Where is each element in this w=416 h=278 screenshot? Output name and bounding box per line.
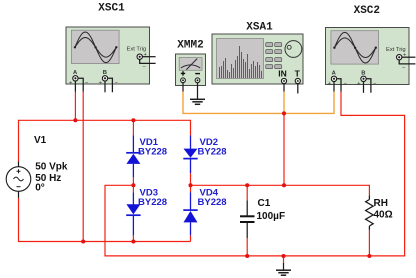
- svg-text:C1: C1: [258, 198, 271, 209]
- wire: output node down from orange junction to mid bus: [283, 113, 285, 185]
- svg-text:100µF: 100µF: [257, 211, 286, 222]
- svg-text:B: B: [361, 71, 365, 77]
- diode VD4: [183, 192, 197, 235]
- svg-text:BY228: BY228: [198, 147, 227, 158]
- diode VD1: [126, 135, 140, 177]
- svg-text:XSC1: XSC1: [98, 3, 125, 15]
- diode VD3: [126, 192, 140, 235]
- svg-text:XSC2: XSC2: [354, 5, 380, 17]
- XSC1 channel A pin stubs: [75, 78, 83, 91]
- junction bottom bus at C1: [245, 254, 249, 258]
- XSC2 channel A terminal: [328, 71, 348, 88]
- XSC1 channel B terminal: [99, 70, 119, 87]
- junction mid bus at C1: [245, 183, 249, 187]
- junction left bridge midpoint: [131, 183, 135, 187]
- XSA1 pin stubs: [284, 84, 298, 94]
- wire: V1 plus up to top bus and top bus to VD2 column: [19, 120, 191, 161]
- oscilloscope XSC2: [326, 28, 410, 85]
- wire: XSC1 A+ down to top bus: [74, 92, 76, 121]
- svg-text:BY228: BY228: [198, 197, 227, 208]
- junction on top bus at VD1: [131, 118, 135, 122]
- svg-text:V1: V1: [34, 135, 47, 146]
- XSC2 channel A pin stubs: [334, 79, 341, 92]
- XSC2 channel B terminal: [357, 71, 377, 88]
- wire (orange): XMM2 plus to XSA1 IN to XSC2 A+: [183, 92, 334, 114]
- svg-text:40Ω: 40Ω: [374, 210, 393, 221]
- svg-text:IN: IN: [278, 68, 287, 78]
- svg-text:0°: 0°: [35, 182, 45, 193]
- junction bottom bus at ground: [281, 254, 285, 258]
- XSC2 channel B pin stubs (unconnected): [364, 79, 371, 93]
- ground under XMM2 minus: [190, 99, 205, 104]
- svg-text:BY228: BY228: [138, 197, 167, 208]
- junction lower bus at VD3: [131, 239, 135, 243]
- oscilloscope XSC1: [66, 27, 150, 84]
- wire: VD4 anode to lower bus: [190, 235, 192, 241]
- junction mid bus at output node: [282, 183, 286, 187]
- wire: V1 minus down and lower bus to VD4: [19, 198, 191, 242]
- XSC1 channel B pin stubs (unconnected): [105, 78, 112, 92]
- svg-text:XMM2: XMM2: [177, 40, 203, 52]
- AC source V1: [6, 162, 31, 198]
- svg-text:BY228: BY228: [138, 147, 167, 158]
- capacitor C1: [240, 185, 255, 256]
- multimeter XMM2: [176, 54, 206, 86]
- wire: VD1 cathode stub to top bus: [132, 120, 134, 135]
- svg-text:50 Vpk: 50 Vpk: [35, 161, 68, 172]
- XSC2 Ext Trig pin stubs: [399, 57, 415, 64]
- junction lower bus at XSC1 A-: [81, 239, 85, 243]
- svg-text:B: B: [103, 70, 107, 76]
- wire: VD3 cathode to lower bus: [132, 235, 134, 241]
- svg-text:XSA1: XSA1: [246, 22, 273, 34]
- XSC1 Ext Trig pin stubs: [140, 57, 156, 64]
- diode VD2: [183, 136, 197, 174]
- XSC1 channel A terminal: [69, 70, 89, 87]
- wire: XSC1 A- down to lower bus: [82, 92, 84, 242]
- junction bottom bus at RH: [367, 254, 371, 258]
- wire: left bridge midpoint to load return: [105, 92, 405, 256]
- junction orange net at XSA1 IN column: [282, 111, 286, 115]
- svg-text:RH: RH: [374, 198, 388, 209]
- junction on top bus at XSC1 A: [73, 118, 77, 122]
- wire: right bridge midpoint bus to C1 XSA1 RH: [191, 185, 370, 195]
- spectrum analyzer XSA1: [212, 34, 303, 84]
- ground (bottom, output return): [276, 256, 291, 275]
- junction right bridge midpoint: [188, 183, 192, 187]
- svg-text:T: T: [295, 68, 301, 78]
- XMM2 pin stubs: [183, 83, 198, 99]
- wire: VD2 to mid junction: [190, 173, 192, 192]
- wire: VD1 anode to VD3 red segment with junction: [132, 177, 134, 192]
- resistor RH: [366, 195, 374, 256]
